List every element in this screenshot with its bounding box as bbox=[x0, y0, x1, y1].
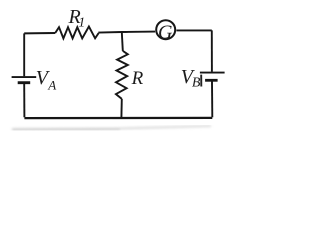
svg-text:R: R bbox=[131, 68, 144, 89]
svg-text:G: G bbox=[158, 21, 173, 43]
svg-text:1: 1 bbox=[78, 16, 85, 31]
svg-text:B: B bbox=[192, 75, 201, 90]
svg-text:A: A bbox=[47, 78, 56, 93]
